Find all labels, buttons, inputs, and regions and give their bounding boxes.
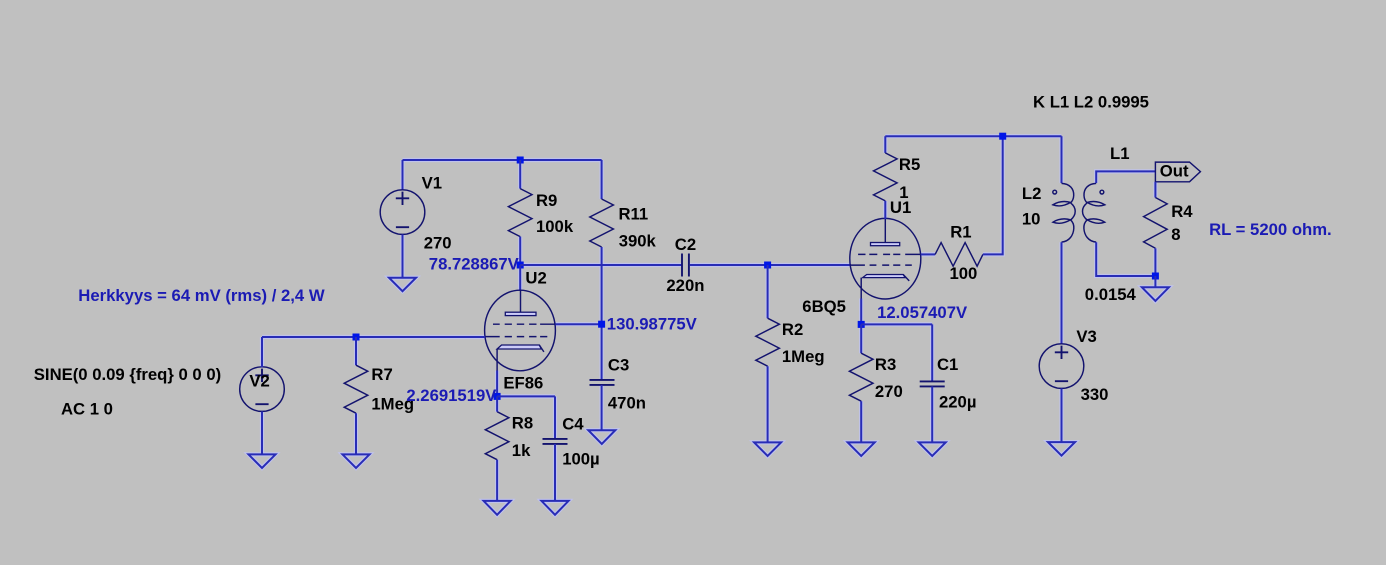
svg-text:K L1 L2 0.9995: K L1 L2 0.9995: [1033, 92, 1149, 111]
svg-text:1Meg: 1Meg: [782, 347, 825, 366]
svg-text:L1: L1: [1110, 144, 1129, 163]
tube U2 EF86 pentode: [485, 290, 556, 371]
svg-text:R1: R1: [950, 223, 971, 242]
wire: C3 bottom lead: [601, 385, 603, 430]
wire: R3 top lead: [860, 324, 862, 353]
tube U1 6BQ5 pentode: [850, 218, 921, 299]
wire: R9 top lead: [519, 160, 521, 189]
svg-text:Herkkyys = 64 mV (rms) / 2,4 W: Herkkyys = 64 mV (rms) / 2,4 W: [78, 286, 325, 305]
svg-text:C1: C1: [937, 355, 958, 374]
capacitor C3: [590, 380, 615, 385]
svg-text:390k: 390k: [619, 231, 657, 250]
svg-text:0.0154: 0.0154: [1085, 285, 1137, 304]
node screen of U2 (130.9V): [598, 321, 605, 328]
wire: input wire from V2 to U2 grid: [262, 336, 485, 338]
svg-text:U2: U2: [525, 269, 546, 288]
wire: R8 bottom lead: [496, 460, 498, 501]
svg-text:SINE(0 0.09 {freq} 0 0 0): SINE(0 0.09 {freq} 0 0 0): [34, 365, 221, 384]
node plate of U2 (78.7V): [517, 262, 524, 269]
svg-text:100k: 100k: [536, 217, 574, 236]
wire: V2 top lead: [261, 337, 263, 367]
inductor L2: [1053, 183, 1075, 242]
svg-text:100µ: 100µ: [562, 449, 599, 468]
wire: cathode node to C4: [497, 396, 555, 438]
wire: R4 top lead: [1154, 182, 1156, 198]
svg-text:78.728867V: 78.728867V: [429, 254, 520, 273]
wire: rail to L2 top: [1061, 136, 1063, 183]
resistor R5: [874, 153, 898, 201]
resistor R1: [935, 243, 983, 267]
node secondary bottom: [1152, 273, 1159, 280]
resistor R9: [508, 189, 532, 237]
svg-text:330: 330: [1081, 385, 1109, 404]
capacitor C1: [920, 381, 945, 386]
ground R8: [484, 501, 511, 515]
wire: R3 bottom lead: [860, 401, 862, 442]
wire: R9 bottom lead to plate node: [519, 237, 521, 265]
wire: plate node to C2: [520, 264, 681, 266]
wire: R5 top corner to rail: [884, 136, 886, 153]
wire: U1 cathode lead to node: [860, 299, 862, 325]
wire: U2 cathode lead to node: [496, 371, 498, 397]
wire: top right rail: [885, 135, 1061, 137]
svg-text:270: 270: [875, 382, 903, 401]
wire halo layer: [249, 136, 1169, 515]
resistor R4: [1144, 198, 1168, 249]
wire: R4 bottom lead: [1154, 248, 1156, 276]
capacitor C4: [543, 439, 568, 444]
svg-text:470n: 470n: [608, 394, 646, 413]
wire: R2 bottom lead: [767, 366, 769, 442]
wire: V2 bottom lead: [261, 412, 263, 455]
svg-text:100: 100: [950, 264, 978, 283]
svg-text:RL = 5200 ohm.: RL = 5200 ohm.: [1209, 220, 1332, 239]
wire: U1 screen to R1: [921, 253, 935, 255]
net flag Out: [1155, 161, 1200, 181]
svg-text:220n: 220n: [666, 276, 704, 295]
phase dot L1: [1100, 190, 1104, 194]
inductor L1: [1083, 183, 1105, 242]
ground C1: [919, 442, 946, 456]
wire: L1 top lead to Out: [1096, 171, 1155, 183]
svg-text:Out: Out: [1160, 161, 1189, 180]
wire: C4 bottom lead: [554, 444, 556, 501]
svg-text:12.057407V: 12.057407V: [877, 303, 968, 322]
node cathode U2 (2.26V): [494, 393, 501, 400]
resistor R3: [849, 353, 873, 401]
svg-text:R11: R11: [619, 205, 649, 224]
ground V2: [249, 454, 276, 468]
resistor R11: [590, 199, 614, 247]
svg-text:130.98775V: 130.98775V: [607, 315, 698, 334]
svg-text:R9: R9: [536, 191, 557, 210]
resistor R7: [344, 365, 368, 413]
svg-text:C2: C2: [675, 235, 696, 254]
wire: C2 to R2 node to U1 grid: [690, 264, 851, 266]
ground secondary: [1142, 287, 1169, 301]
capacitor C2: [682, 254, 689, 277]
wire: cathode node to C1: [861, 324, 932, 381]
wire: R5 bottom lead to U1 plate: [884, 201, 886, 219]
ground R3: [848, 442, 875, 456]
svg-text:V2: V2: [249, 372, 269, 391]
svg-text:1k: 1k: [512, 441, 531, 460]
wire: node to ground: [1154, 276, 1156, 287]
voltage source V3: [1039, 344, 1084, 389]
wire: R7 top lead: [355, 337, 357, 365]
wire: U2 screen grid to R11/C3 node: [555, 323, 601, 325]
node R2 junction: [764, 262, 771, 269]
svg-text:R4: R4: [1171, 202, 1193, 221]
voltage source V1: [380, 190, 425, 235]
svg-text:R5: R5: [899, 155, 920, 174]
ground V1: [389, 278, 416, 292]
wire: R1 right lead up to top rail: [983, 136, 1003, 254]
svg-text:V1: V1: [422, 174, 442, 193]
svg-text:AC 1 0: AC 1 0: [61, 399, 113, 418]
wire: B+ top rail V1 to R9 to R11: [403, 159, 602, 161]
ground V3: [1048, 442, 1075, 456]
svg-text:R3: R3: [875, 355, 896, 374]
resistor R8: [485, 412, 509, 460]
wire: V3 bottom lead: [1061, 388, 1063, 442]
node cathode U1 (12.05V): [858, 321, 865, 328]
wire: R2 top lead: [767, 265, 769, 318]
ground C3: [588, 430, 615, 444]
wire: R11 bottom lead down to screen node and C3: [601, 247, 603, 380]
svg-text:C4: C4: [562, 414, 584, 433]
svg-text:270: 270: [424, 233, 452, 252]
svg-text:EF86: EF86: [503, 373, 543, 392]
svg-text:1: 1: [899, 183, 908, 202]
voltage source V2: [240, 367, 285, 412]
resistor R2: [756, 318, 780, 366]
wire: V1 top lead: [402, 160, 404, 190]
wire: L1 bottom lead: [1096, 242, 1155, 276]
wire: R11 top lead: [601, 160, 603, 199]
svg-text:R8: R8: [512, 414, 533, 433]
svg-text:10: 10: [1022, 210, 1041, 229]
ground C4: [542, 501, 569, 515]
node top right rail: [999, 133, 1006, 140]
svg-text:L2: L2: [1022, 184, 1041, 203]
wire: U2 plate lead upper: [519, 265, 521, 291]
svg-text:220µ: 220µ: [939, 392, 976, 411]
svg-text:6BQ5: 6BQ5: [802, 297, 846, 316]
wire: C1 bottom lead: [931, 386, 933, 442]
svg-text:8: 8: [1171, 225, 1180, 244]
wire: R7 bottom lead: [355, 413, 357, 454]
node junction on B+ rail: [517, 157, 524, 164]
node grid input junction: [353, 334, 360, 341]
svg-text:R7: R7: [371, 365, 392, 384]
wire: R8 top lead: [496, 396, 498, 411]
wire: L2 bottom lead to V3: [1061, 242, 1063, 344]
svg-text:2.2691519V: 2.2691519V: [406, 386, 497, 405]
svg-text:R2: R2: [782, 320, 803, 339]
ground R2: [754, 442, 781, 456]
svg-text:C3: C3: [608, 356, 629, 375]
wire: V1 bottom lead: [402, 234, 404, 277]
ground R7: [343, 454, 370, 468]
svg-text:V3: V3: [1076, 327, 1096, 346]
